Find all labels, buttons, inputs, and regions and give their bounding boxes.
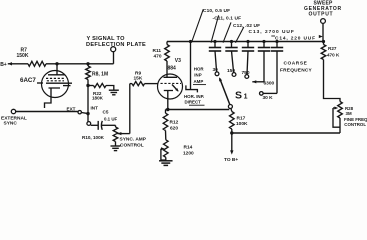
label C14 with leader dash and arrow [271, 35, 275, 37]
svg-text:100K: 100K [236, 121, 248, 127]
wire top bus [167, 41, 324, 43]
svg-text:R10, 100K: R10, 100K [82, 135, 105, 140]
svg-text:470: 470 [154, 54, 162, 60]
capacitor C11 0.1 UF [230, 40, 233, 43]
6AC7 cathode lead [45, 88, 52, 108]
wire plate bus y=64 [46, 63, 114, 65]
resistor R17 100K [230, 112, 235, 130]
wire R17 to bottom node [231, 129, 233, 133]
svg-text:DEFLECTION PLATE: DEFLECTION PLATE [86, 42, 146, 48]
node R8 junction [86, 62, 89, 65]
capacitor C14 220 UUF [275, 40, 278, 43]
svg-text:R11: R11 [153, 48, 162, 54]
svg-text:1200: 1200 [183, 150, 194, 156]
svg-text:-C11, 0.1 UF: -C11, 0.1 UF [213, 15, 242, 21]
resistor R9 15K [130, 83, 132, 85]
wire external sync to EXT contact [16, 111, 78, 113]
rheostat R28 3M fine freq control [338, 102, 343, 119]
contact S1 position 750 [245, 75, 249, 79]
svg-text:470 K: 470 K [327, 53, 340, 58]
wire 6300 contact arrow [252, 80, 256, 83]
R10 wiper arrow [117, 132, 121, 135]
V3 plate bar [164, 76, 178, 78]
wire pole to C5 [91, 124, 99, 126]
6AC7 label stub left [37, 82, 43, 84]
svg-text:SYNC. AMP: SYNC. AMP [120, 137, 147, 143]
svg-text:C10, 0.5 UF: C10, 0.5 UF [203, 8, 230, 14]
resistor R8 1M [87, 64, 89, 66]
6AC7 plate lead [56, 64, 58, 75]
capacitor C12 .02 UF [246, 40, 249, 43]
svg-text:150K: 150K [17, 53, 29, 59]
node bus/output rail junction [322, 40, 325, 43]
label C10 with leader [192, 9, 204, 42]
svg-text:R17: R17 [237, 116, 246, 122]
capacitor C13 2700 UUF [262, 40, 265, 43]
wire to 30K contact [263, 92, 277, 94]
svg-text:C14, 220 UUF: C14, 220 UUF [275, 36, 316, 42]
svg-text:30 K: 30 K [263, 95, 274, 101]
wire R27 to R28 [324, 60, 341, 102]
label C11 with leader [211, 15, 219, 42]
capacitor C10 0.5 UF [213, 40, 216, 43]
resistor R27 470K [323, 42, 325, 45]
svg-text:C5: C5 [103, 110, 109, 115]
svg-text:HOR. INP.: HOR. INP. [184, 94, 204, 99]
svg-text:884: 884 [168, 66, 177, 72]
wire R9 to V3 grid [145, 83, 160, 85]
svg-text:CONTROL: CONTROL [344, 122, 366, 127]
rheostat R14 1200 [164, 140, 169, 158]
svg-text:INP: INP [194, 73, 201, 78]
resistor R11 470 [166, 42, 168, 45]
svg-text:EXT: EXT [67, 107, 76, 112]
tube V3 884 envelope [158, 74, 183, 99]
node R17 / B+ junction [230, 131, 233, 134]
switch blade EXT/INT [82, 113, 89, 114]
V3 grid (dashed) [161, 82, 182, 84]
svg-text:DIRECT: DIRECT [185, 100, 202, 105]
6AC7 screen grid line with right stub [46, 82, 72, 84]
potentiometer R10 100K sync amp control [115, 125, 117, 127]
svg-text:1: 1 [244, 94, 248, 101]
svg-text:S: S [235, 90, 242, 102]
wire bus tap for horizontal input [189, 40, 192, 43]
V3 cathode lead [167, 91, 169, 110]
svg-text:150: 150 [227, 68, 235, 74]
V3 cathode bar [164, 90, 173, 92]
wire B+ to R7 with arrowhead [8, 62, 12, 65]
svg-text:INT: INT [91, 106, 99, 111]
svg-text:3M: 3M [346, 111, 352, 116]
svg-text:CONTROL: CONTROL [120, 143, 144, 149]
svg-text:COARSE: COARSE [284, 61, 308, 67]
svg-text:TO B+: TO B+ [224, 157, 238, 163]
wire R22 to ground [106, 86, 114, 90]
ground (R10) [111, 145, 121, 147]
terminal sweep generator output [321, 19, 326, 24]
svg-text:FINE FREQ: FINE FREQ [344, 117, 367, 122]
wire R28 to B+ node [339, 118, 341, 133]
wire R10 to ground [115, 142, 117, 146]
terminal EXTERNAL SYNC [11, 109, 15, 113]
svg-text:750: 750 [242, 70, 250, 76]
label C13 with leader [236, 27, 244, 43]
contact S1 position 30K [260, 92, 264, 96]
contact S1 position 150 [232, 73, 236, 77]
wire TO B+ with arrow [231, 133, 233, 152]
svg-text:30: 30 [213, 67, 219, 73]
contact S1 position 30 [215, 72, 219, 76]
wire R14 to ground [165, 157, 167, 160]
svg-text:HOR: HOR [194, 67, 205, 72]
svg-text:6300: 6300 [264, 81, 275, 87]
svg-text:R12: R12 [170, 120, 179, 126]
switch S1 arm [220, 78, 230, 104]
wire bottom return [232, 132, 340, 134]
svg-text:0.1 UF: 0.1 UF [104, 116, 117, 121]
svg-text:SYNC: SYNC [4, 121, 18, 127]
svg-text:R8, 1M: R8, 1M [92, 72, 108, 78]
svg-text:R27: R27 [328, 46, 337, 51]
switch S1 pivot [228, 105, 232, 109]
label C12 with leader [223, 22, 231, 42]
capacitor C5 0.1 UF [97, 121, 99, 130]
wire wiper to R9 grid node [129, 84, 131, 134]
svg-text:C13, 2700 UUF: C13, 2700 UUF [249, 29, 295, 35]
terminal Y SIGNAL output [111, 47, 116, 52]
svg-text:R14: R14 [184, 145, 193, 151]
svg-text:15K: 15K [134, 76, 143, 82]
resistor R22 180K to ground [88, 85, 94, 87]
wire cathode bus to S1 pivot [166, 109, 230, 111]
6AC7 grid (dashed) [46, 77, 65, 79]
wire output terminal to bus [322, 23, 324, 41]
6AC7 plate bar [48, 74, 65, 76]
6AC7 cathode bar [49, 87, 61, 89]
node blade pivot [86, 112, 89, 115]
wire R12 to R14 [165, 131, 167, 140]
R14 wiper arrow and strap [161, 147, 165, 150]
resistor R12 620 [165, 110, 167, 114]
ground (R22) [109, 89, 119, 91]
wire R11 to V3 plate [166, 61, 168, 77]
wire pivot to R17 [230, 108, 233, 111]
svg-text:180K: 180K [92, 96, 104, 101]
svg-text:AMP: AMP [194, 79, 204, 84]
wire R8 to INT contact [87, 80, 89, 122]
svg-text:OUTPUT: OUTPUT [309, 12, 334, 18]
node R8/R22 junction [86, 84, 89, 87]
svg-text:B+: B+ [0, 62, 7, 68]
wire C5 to R10 [102, 124, 116, 126]
svg-text:6AC7: 6AC7 [20, 77, 36, 84]
svg-text:C12, .02 UF: C12, .02 UF [233, 23, 260, 29]
R28 wiper arrow and strap [334, 107, 338, 110]
hor. inp. direct tap bracket [186, 85, 198, 92]
tube 6AC7 envelope [42, 71, 69, 98]
V3 gas arrow [172, 85, 178, 92]
svg-text:V3: V3 [175, 58, 181, 64]
svg-text:620: 620 [170, 126, 178, 132]
wire to Y signal terminal [113, 52, 115, 64]
contact EXT [78, 111, 81, 114]
node V2 plate junction [55, 62, 58, 65]
node cathode junction [166, 108, 169, 111]
contact sync pole [87, 122, 91, 126]
ground (R14) [159, 160, 173, 162]
resistor R7 150K [28, 61, 46, 66]
svg-text:FREQUENCY: FREQUENCY [280, 67, 313, 73]
